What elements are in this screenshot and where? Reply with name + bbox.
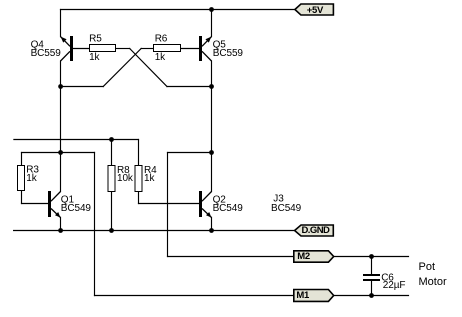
wire Q5 emitter drop xyxy=(211,10,213,37)
svg-text:M1: M1 xyxy=(296,290,310,301)
svg-text:R5: R5 xyxy=(89,34,102,45)
resistor R6 xyxy=(154,45,181,52)
capacitor C6 xyxy=(363,274,380,281)
svg-text:Pot: Pot xyxy=(419,261,436,273)
wire ground rail to D.GND xyxy=(14,230,295,232)
wire top +5V rail xyxy=(61,9,295,11)
wire line A base row xyxy=(14,139,139,141)
node gnd Q2 xyxy=(209,228,214,233)
node top rail / Q5 xyxy=(209,7,214,12)
wire left node horizontal xyxy=(61,86,104,88)
wire M2 vertical drop xyxy=(167,153,169,257)
node gnd Q1 xyxy=(58,228,63,233)
node C6 bottom xyxy=(369,293,374,298)
wire C6 bottom lead xyxy=(371,281,373,296)
node right collector xyxy=(209,84,214,89)
svg-text:BC549: BC549 xyxy=(213,203,244,214)
wire Q5 collector drop xyxy=(211,61,213,87)
svg-text:D.GND: D.GND xyxy=(302,225,331,236)
wire R5 right stub xyxy=(116,48,130,50)
svg-text:1k: 1k xyxy=(89,52,100,63)
tag D.GND xyxy=(295,225,334,236)
wire R6 left stub xyxy=(141,48,153,50)
svg-text:BC559: BC559 xyxy=(213,48,244,59)
wire Q1 emitter drop xyxy=(60,217,62,230)
resistor R5 xyxy=(90,45,116,52)
transistor Q1 xyxy=(48,191,61,218)
wire R8 top drop xyxy=(111,140,113,166)
node C6 top xyxy=(369,254,374,259)
svg-text:BC549: BC549 xyxy=(271,203,302,214)
svg-text:BC549: BC549 xyxy=(61,203,92,214)
transistor Q5 xyxy=(199,36,212,61)
wire line B M1 node row xyxy=(22,152,95,154)
node M1 net xyxy=(58,150,63,155)
wire Q4 collector drop xyxy=(60,61,62,87)
resistor R4 xyxy=(135,166,142,192)
wire right vertical to Q2 xyxy=(211,153,213,192)
wire M1 row left xyxy=(95,295,294,297)
svg-text:M2: M2 xyxy=(297,251,310,262)
wire R3 top drop xyxy=(21,153,23,166)
wire R8 bottom drop xyxy=(111,192,113,231)
svg-text:22µF: 22µF xyxy=(383,280,406,291)
svg-text:1k: 1k xyxy=(144,173,155,184)
node left collector xyxy=(58,84,63,89)
wire Q4 base to R5 xyxy=(73,48,90,50)
svg-text:R6: R6 xyxy=(155,34,168,45)
svg-text:1k: 1k xyxy=(26,173,37,184)
wire right vertical Q5 down xyxy=(211,87,213,153)
svg-text:+5V: +5V xyxy=(307,5,324,16)
wire M2 row left xyxy=(168,256,294,258)
wire M2 row right xyxy=(334,256,409,258)
tag M1 xyxy=(294,290,334,302)
tag M2 xyxy=(294,251,334,262)
wire C6 top lead xyxy=(371,257,373,274)
transistor Q2 xyxy=(199,191,212,218)
resistor R3 xyxy=(18,166,25,191)
node R8 top xyxy=(109,137,114,142)
wire cross-couple R6 to left node xyxy=(103,49,141,87)
wire R4 top drop xyxy=(138,140,140,166)
svg-text:BC559: BC559 xyxy=(31,48,62,59)
wire M1 row right xyxy=(334,295,409,297)
wire Q4 emitter drop xyxy=(60,10,62,37)
node M2 net xyxy=(209,150,214,155)
wire M2 node row xyxy=(168,152,212,154)
svg-text:1k: 1k xyxy=(155,52,166,63)
wire cross-couple R5 to right node xyxy=(130,49,167,87)
wire R3 bottom to Q1 base xyxy=(21,191,23,204)
wire right node horizontal xyxy=(167,86,212,88)
svg-text:10k: 10k xyxy=(117,173,134,184)
tag +5V xyxy=(295,4,334,16)
transistor Q4 xyxy=(61,36,74,61)
wire Q2 emitter drop xyxy=(211,217,213,230)
wire R6 to Q5 base xyxy=(181,48,200,50)
svg-text:Motor: Motor xyxy=(419,276,447,288)
node gnd R8 xyxy=(109,228,114,233)
resistor R8 xyxy=(108,166,115,192)
wire left vertical Q4 to Q1 xyxy=(60,87,62,192)
wire R4 bottom to Q2 base xyxy=(138,192,140,204)
wire M1 vertical drop xyxy=(94,153,96,296)
